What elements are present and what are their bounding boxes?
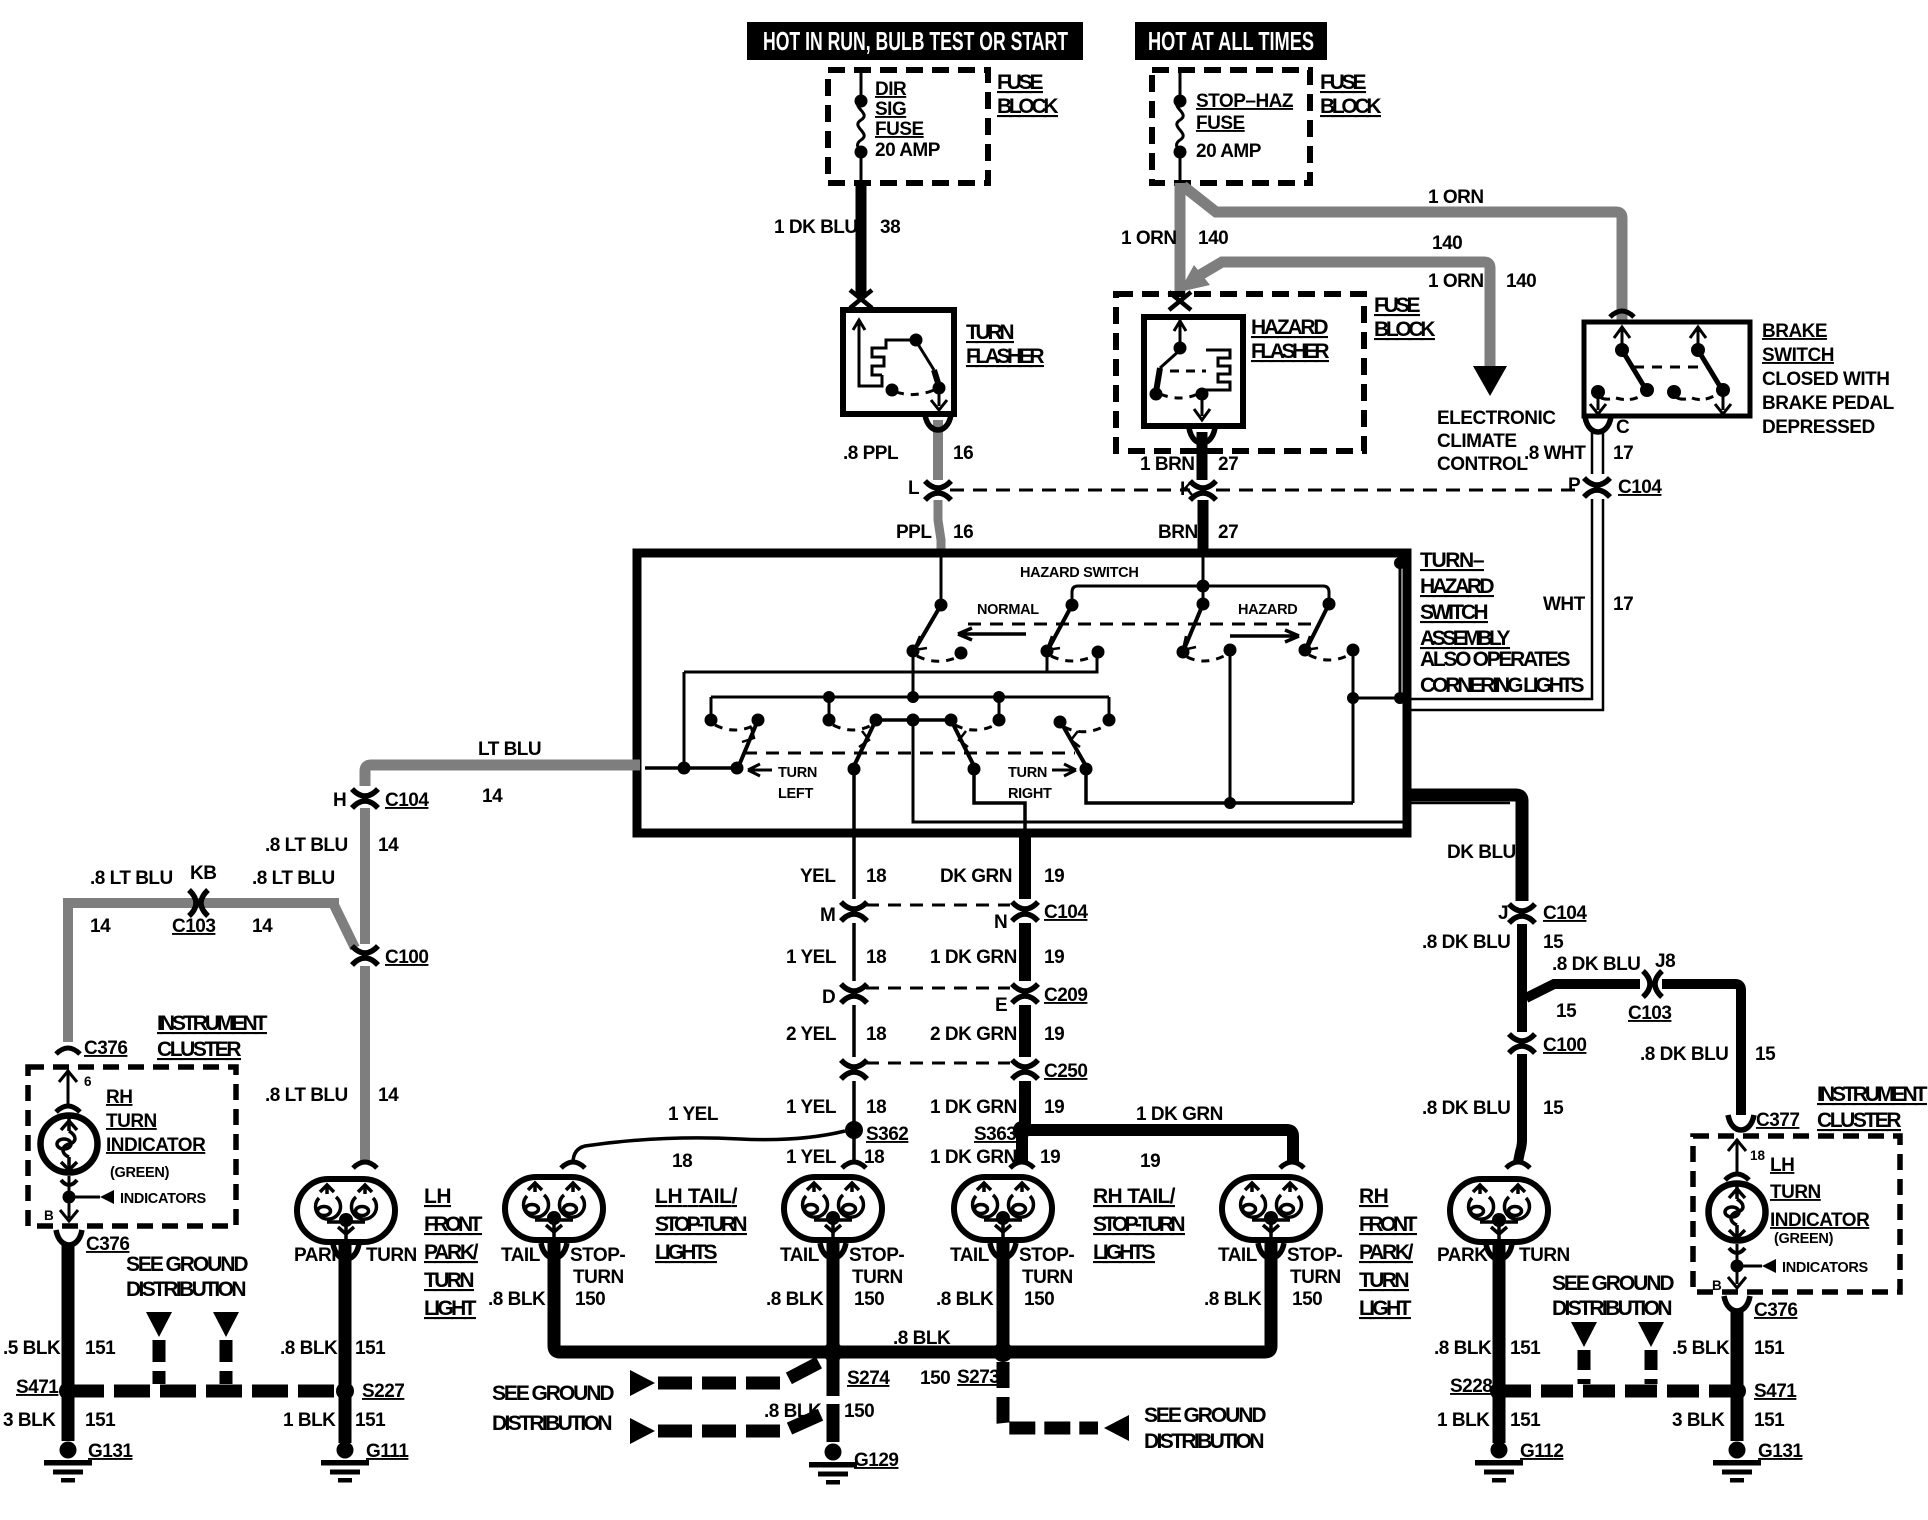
svg-text:.8 DK BLU: .8 DK BLU <box>1422 932 1510 953</box>
svg-text:151: 151 <box>1510 1338 1541 1359</box>
svg-text:BLOCK: BLOCK <box>1320 95 1381 118</box>
splice S471 (right) <box>1728 1382 1746 1400</box>
LH turn indicator bulb (GREEN) <box>1725 1174 1749 1180</box>
svg-text:3 BLK: 3 BLK <box>3 1410 56 1431</box>
svg-text:TURN: TURN <box>1359 1269 1409 1292</box>
svg-text:TAIL: TAIL <box>950 1245 990 1266</box>
svg-text:1 ORN: 1 ORN <box>1121 228 1177 249</box>
svg-text:.8 BLK: .8 BLK <box>936 1289 994 1310</box>
svg-text:TURN: TURN <box>1290 1267 1341 1288</box>
svg-text:FUSE: FUSE <box>875 119 924 140</box>
LH tail/stop-turn lamp (inner) <box>842 1162 866 1168</box>
node BRN junction <box>1197 580 1210 593</box>
dashed travel line (turn row) <box>744 752 1075 755</box>
svg-text:RIGHT: RIGHT <box>1008 786 1052 802</box>
svg-text:CLOSED WITH: CLOSED WITH <box>1762 369 1890 390</box>
svg-text:PARK: PARK <box>1437 1245 1488 1266</box>
wire turn-right feed <box>1086 769 1353 803</box>
wire 1 DK GRN 19 (S363 to lamp) <box>1016 1136 1028 1162</box>
wire BRN 27 below C104 <box>1198 500 1209 557</box>
svg-text:1 DK BLU: 1 DK BLU <box>774 217 858 238</box>
svg-text:1 YEL: 1 YEL <box>786 947 837 968</box>
svg-text:DISTRIBUTION: DISTRIBUTION <box>126 1278 246 1301</box>
svg-text:FUSE: FUSE <box>1320 71 1366 94</box>
svg-text:DK GRN: DK GRN <box>940 866 1012 887</box>
svg-text:L: L <box>908 478 920 499</box>
svg-text:151: 151 <box>85 1338 116 1359</box>
svg-text:NORMAL: NORMAL <box>977 602 1039 618</box>
RH tail/stop-turn lamp (outer) <box>1280 1162 1304 1168</box>
wire .5 BLK 151 <box>62 1244 75 1441</box>
svg-text:TURN: TURN <box>573 1267 624 1288</box>
svg-text:LIGHT: LIGHT <box>424 1297 477 1320</box>
fuse block 2 (dashed box) <box>1152 70 1310 183</box>
wire .8 DK BLU 15 <box>1517 924 1527 1032</box>
connector below hazard flasher <box>1189 428 1215 443</box>
svg-text:TURN–: TURN– <box>1420 549 1485 572</box>
svg-text:19: 19 <box>1140 1151 1160 1172</box>
svg-text:DISTRIBUTION: DISTRIBUTION <box>1144 1430 1264 1453</box>
svg-text:BRAKE PEDAL: BRAKE PEDAL <box>1762 393 1895 414</box>
svg-text:140: 140 <box>1506 271 1536 292</box>
TURN LEFT label with arrow <box>748 764 772 776</box>
svg-text:.8 DK BLU: .8 DK BLU <box>1552 954 1640 975</box>
ground G129 <box>809 1444 857 1485</box>
turn flasher internals <box>853 320 947 410</box>
wire .5 BLK 151 (right) <box>1731 1310 1744 1441</box>
connector C103 <box>189 890 208 916</box>
svg-text:TURN: TURN <box>366 1245 417 1266</box>
wire .8 DK BLU 15 to C377 <box>1662 984 1741 1115</box>
connector C250 (grn) <box>1012 1060 1038 1079</box>
svg-text:S471: S471 <box>16 1377 59 1398</box>
svg-text:STOP-: STOP- <box>1019 1245 1074 1266</box>
svg-text:140: 140 <box>1198 228 1228 249</box>
svg-text:TURN: TURN <box>1770 1182 1821 1203</box>
svg-text:S471: S471 <box>1754 1381 1797 1402</box>
svg-text:.8 LT BLU: .8 LT BLU <box>252 868 335 889</box>
splice S362 <box>845 1121 863 1139</box>
wire 1 YEL 18 (below C250) <box>852 1081 856 1124</box>
svg-text:G131: G131 <box>1758 1441 1803 1462</box>
wire .8 BLK 151 (RH park lamp to S228) <box>1493 1243 1506 1443</box>
splice S227 <box>336 1382 354 1400</box>
svg-text:C103: C103 <box>1628 1003 1671 1024</box>
svg-text:14: 14 <box>482 786 503 807</box>
svg-text:STOP-: STOP- <box>570 1245 625 1266</box>
hazard flasher internals <box>1156 320 1230 420</box>
svg-text:RH: RH <box>106 1087 132 1108</box>
wire 1 ORN 140 (fuse to hazard flasher, shaded) <box>1175 183 1186 296</box>
switch blade S2 <box>1066 599 1079 612</box>
svg-text:19: 19 <box>1044 947 1064 968</box>
svg-text:CORNERING LIGHTS: CORNERING LIGHTS <box>1420 674 1584 697</box>
svg-text:SWITCH: SWITCH <box>1420 601 1488 624</box>
svg-text:150: 150 <box>1292 1289 1322 1310</box>
svg-text:6: 6 <box>84 1074 92 1089</box>
svg-text:14: 14 <box>378 835 399 856</box>
wire contact bus upper <box>684 651 1097 768</box>
svg-text:.8 BLK: .8 BLK <box>1434 1338 1492 1359</box>
svg-text:TAIL: TAIL <box>780 1245 820 1266</box>
ground G112 <box>1475 1442 1523 1483</box>
feed banner HOT IN RUN <box>747 22 1083 60</box>
svg-text:19: 19 <box>1044 1097 1064 1118</box>
wire to S4 pivot <box>1203 586 1329 602</box>
svg-text:FRONT: FRONT <box>424 1213 483 1236</box>
svg-text:1 ORN: 1 ORN <box>1428 187 1484 208</box>
svg-text:1 DK GRN: 1 DK GRN <box>930 1147 1017 1168</box>
svg-text:SEE GROUND: SEE GROUND <box>126 1253 248 1276</box>
dashed link D-E <box>866 987 1010 990</box>
wire dk grn feed down <box>974 769 1025 833</box>
ground bus S471-S227 (dashed) <box>68 1385 345 1398</box>
turn flasher box <box>843 310 954 414</box>
pin 18 <box>1736 1139 1739 1172</box>
wire 2 YEL 18 <box>852 1005 856 1057</box>
svg-text:G131: G131 <box>88 1441 133 1462</box>
splice S273 <box>993 1342 1013 1362</box>
svg-text:LIGHTS: LIGHTS <box>655 1241 717 1264</box>
svg-text:1 YEL: 1 YEL <box>786 1147 837 1168</box>
svg-text:C104: C104 <box>1044 902 1088 923</box>
svg-text:150: 150 <box>920 1368 950 1389</box>
wire .8 DK BLU 15 to RH park lamp <box>1518 1054 1522 1162</box>
wire 1 ORN 140 (fuse to climate control, shaded) <box>1200 262 1490 368</box>
svg-text:18: 18 <box>866 866 886 887</box>
wire to S2 pivot <box>1072 586 1203 603</box>
contact arcs row <box>715 725 755 730</box>
svg-text:(GREEN): (GREEN) <box>1774 1231 1834 1247</box>
svg-text:16: 16 <box>953 522 973 543</box>
svg-text:P: P <box>1568 475 1581 496</box>
svg-text:E: E <box>995 995 1007 1016</box>
svg-text:DISTRIBUTION: DISTRIBUTION <box>1552 1297 1672 1320</box>
svg-text:SEE GROUND: SEE GROUND <box>492 1382 614 1405</box>
brake switch internals <box>1590 327 1731 414</box>
svg-text:J8: J8 <box>1655 951 1675 972</box>
svg-text:S363: S363 <box>974 1124 1016 1145</box>
connector C376 (right) <box>1724 1296 1750 1311</box>
ground G131 <box>44 1442 92 1483</box>
svg-text:FUSE: FUSE <box>1374 294 1420 317</box>
wire PPL into switch <box>940 557 943 602</box>
svg-text:G112: G112 <box>1520 1441 1563 1462</box>
svg-text:18: 18 <box>866 1024 886 1045</box>
svg-text:LH: LH <box>1770 1155 1794 1176</box>
svg-text:C104: C104 <box>1618 477 1662 498</box>
svg-text:.8 LT BLU: .8 LT BLU <box>90 868 173 889</box>
turn blade grn <box>953 724 974 766</box>
svg-text:14: 14 <box>378 1085 399 1106</box>
svg-text:150: 150 <box>854 1289 884 1310</box>
turn-right blade <box>1063 726 1086 766</box>
svg-text:CONTROL: CONTROL <box>1437 454 1528 475</box>
wire wht contact drop <box>1353 560 1400 803</box>
svg-text:M: M <box>820 905 835 926</box>
svg-text:LH TAIL/: LH TAIL/ <box>655 1185 738 1208</box>
svg-text:15: 15 <box>1543 1098 1564 1119</box>
wire yel feed down <box>852 769 856 833</box>
svg-text:D: D <box>822 987 835 1008</box>
wire 1 DK GRN 19 <box>1019 923 1031 981</box>
svg-text:RH: RH <box>1359 1185 1388 1208</box>
svg-text:38: 38 <box>880 217 900 238</box>
ground bus S228-S471 (dashed) <box>1499 1385 1737 1398</box>
svg-text:17: 17 <box>1613 443 1633 464</box>
fuse STOP-HAZ 20 AMP <box>1177 73 1184 186</box>
brake switch entry connector <box>1610 311 1634 317</box>
indicators tap (right) <box>1736 1244 1739 1284</box>
switch blade S3 (hazard) <box>1202 586 1205 601</box>
svg-text:LIGHT: LIGHT <box>1359 1297 1412 1320</box>
svg-text:S227: S227 <box>362 1381 404 1402</box>
svg-text:S362: S362 <box>866 1124 908 1145</box>
svg-text:ALSO OPERATES: ALSO OPERATES <box>1420 648 1570 671</box>
svg-text:1 BRN: 1 BRN <box>1140 454 1195 475</box>
svg-text:C250: C250 <box>1044 1061 1087 1082</box>
svg-text:1 BLK: 1 BLK <box>283 1410 336 1431</box>
LH front park/turn lamp <box>353 1162 377 1168</box>
dashed link C250 <box>866 1062 1010 1065</box>
wire LT BLU inside <box>645 766 737 770</box>
contact arc S1 <box>907 645 920 658</box>
dashed link M-N <box>866 904 1010 907</box>
svg-text:151: 151 <box>355 1338 386 1359</box>
wire 1 DK BLU 38 <box>856 183 867 296</box>
svg-text:HAZARD: HAZARD <box>1420 575 1494 598</box>
svg-text:TURN: TURN <box>106 1111 157 1132</box>
svg-text:DK BLU: DK BLU <box>1447 842 1516 863</box>
svg-text:.5 BLK: .5 BLK <box>1672 1338 1730 1359</box>
svg-text:TURN: TURN <box>778 765 817 781</box>
RH front park/turn lamp <box>1506 1162 1530 1168</box>
svg-text:151: 151 <box>1754 1410 1785 1431</box>
switch blade S1 (normal left) <box>935 599 948 612</box>
svg-text:N: N <box>994 912 1007 933</box>
hazard flasher fuse block (dashed box) <box>1116 294 1364 451</box>
ground G111 <box>321 1442 369 1483</box>
switch blade S4 (hazard right) <box>1323 598 1336 611</box>
svg-text:TAIL: TAIL <box>1218 1245 1258 1266</box>
wire BRN into switch <box>1202 557 1205 583</box>
instrument cluster box (left, dashed) <box>28 1067 236 1226</box>
turn-hazard switch assembly box <box>637 553 1407 833</box>
splice S363 <box>1013 1121 1031 1139</box>
wire .8 LT BLU branch (shaded) to C103 <box>68 903 355 1042</box>
svg-text:SIG: SIG <box>875 99 906 120</box>
ground dist arrow 4 <box>1638 1322 1664 1347</box>
svg-text:1 DK GRN: 1 DK GRN <box>1136 1104 1223 1125</box>
svg-text:C104: C104 <box>1543 903 1587 924</box>
svg-text:(GREEN): (GREEN) <box>110 1165 170 1181</box>
svg-text:1 YEL: 1 YEL <box>668 1104 719 1125</box>
svg-text:ASSEMBLY: ASSEMBLY <box>1420 627 1510 650</box>
contact row <box>705 714 718 727</box>
wire lower cross link <box>913 720 1403 822</box>
svg-text:151: 151 <box>85 1410 116 1431</box>
LH tail/stop-turn lamp (outer) <box>561 1162 585 1168</box>
connector C376 (bottom) <box>56 1230 82 1245</box>
svg-text:1 DK GRN: 1 DK GRN <box>930 1097 1017 1118</box>
svg-text:SWITCH: SWITCH <box>1762 345 1834 366</box>
svg-text:18: 18 <box>866 947 886 968</box>
svg-text:INSTRUMENT: INSTRUMENT <box>157 1012 268 1035</box>
svg-text:B: B <box>44 1208 54 1223</box>
svg-text:KB: KB <box>190 863 216 884</box>
svg-text:18: 18 <box>1750 1148 1766 1163</box>
svg-text:151: 151 <box>1754 1338 1785 1359</box>
svg-text:TURN: TURN <box>852 1267 903 1288</box>
svg-text:CLIMATE: CLIMATE <box>1437 431 1517 452</box>
wire lamp3 to S273 <box>997 1243 1010 1352</box>
svg-text:.8 LT BLU: .8 LT BLU <box>265 1085 348 1106</box>
wire .8 PPL 16 (shaded) <box>933 420 943 480</box>
ground dist arrow 1 <box>146 1312 172 1337</box>
wire PPL 16 below C104 <box>938 500 941 557</box>
svg-text:20 AMP: 20 AMP <box>875 140 941 161</box>
svg-text:.8 DK BLU: .8 DK BLU <box>1640 1044 1728 1065</box>
svg-text:HAZARD: HAZARD <box>1238 602 1297 618</box>
svg-text:FUSE: FUSE <box>1196 113 1245 134</box>
svg-text:C103: C103 <box>172 916 215 937</box>
svg-text:.8 PPL: .8 PPL <box>843 443 899 464</box>
svg-text:2 DK GRN: 2 DK GRN <box>930 1024 1017 1045</box>
svg-text:PARK/: PARK/ <box>424 1241 479 1264</box>
svg-text:SEE GROUND: SEE GROUND <box>1144 1404 1266 1427</box>
svg-text:INSTRUMENT: INSTRUMENT <box>1817 1083 1928 1106</box>
wire lamp2 to S274 <box>827 1243 840 1352</box>
ground G131 (right) <box>1713 1442 1761 1483</box>
svg-text:.5 BLK: .5 BLK <box>3 1338 61 1359</box>
svg-text:HOT IN RUN, BULB TEST OR START: HOT IN RUN, BULB TEST OR START <box>763 26 1068 56</box>
svg-text:TURN: TURN <box>966 321 1014 344</box>
wire .8 BLK 150 S274 to G129 <box>827 1352 840 1442</box>
svg-text:TURN: TURN <box>1008 765 1047 781</box>
connector below turn flasher <box>925 415 951 430</box>
svg-text:18: 18 <box>864 1147 884 1168</box>
svg-text:STOP–HAZ: STOP–HAZ <box>1196 91 1294 112</box>
svg-text:19: 19 <box>1044 866 1064 887</box>
ground dist arrow S273 <box>1003 1362 1098 1428</box>
svg-text:LH: LH <box>424 1185 451 1208</box>
svg-text:STOP-: STOP- <box>1287 1245 1342 1266</box>
svg-text:.8 WHT: .8 WHT <box>1524 443 1586 464</box>
svg-text:2 YEL: 2 YEL <box>786 1024 837 1045</box>
splice S274 <box>823 1342 843 1362</box>
arrow to electronic climate control <box>1473 366 1507 396</box>
svg-text:INDICATOR: INDICATOR <box>1770 1210 1870 1231</box>
connector C100 (right) <box>1509 1034 1535 1053</box>
svg-text:20 AMP: 20 AMP <box>1196 141 1262 162</box>
svg-text:FLASHER: FLASHER <box>1251 340 1329 363</box>
svg-text:LT BLU: LT BLU <box>478 739 541 760</box>
svg-text:150: 150 <box>844 1401 874 1422</box>
svg-text:TURN: TURN <box>1519 1245 1570 1266</box>
feed banner HOT AT ALL TIMES <box>1135 22 1327 60</box>
connector C100 (left) <box>352 946 378 965</box>
svg-text:DEPRESSED: DEPRESSED <box>1762 417 1875 438</box>
svg-text:INDICATOR: INDICATOR <box>106 1135 206 1156</box>
wire 1 YEL 18 branch to LH tail <box>573 1131 845 1163</box>
dashed travel line (normal row) <box>968 623 1311 626</box>
svg-text:3 BLK: 3 BLK <box>1672 1410 1725 1431</box>
connector C376 (top) <box>56 1048 80 1054</box>
svg-text:151: 151 <box>355 1410 386 1431</box>
pin 6 <box>67 1070 70 1104</box>
wire hazard contact drop <box>1229 650 1232 803</box>
svg-text:18: 18 <box>672 1151 692 1172</box>
svg-text:C376: C376 <box>1754 1300 1797 1321</box>
wire .8 LT BLU 14 (shaded) C100 to park lamp <box>360 966 370 1162</box>
svg-text:FLASHER: FLASHER <box>966 345 1044 368</box>
wire YEL 18 <box>852 833 856 899</box>
wire 1 DK GRN 19 (below C250) <box>1019 1081 1031 1124</box>
svg-text:S274: S274 <box>847 1368 890 1389</box>
svg-text:TURN: TURN <box>424 1269 474 1292</box>
svg-text:17: 17 <box>1613 594 1633 615</box>
svg-text:C100: C100 <box>385 947 428 968</box>
svg-text:14: 14 <box>252 916 273 937</box>
wire 1 DK GRN 19 branch to RH tail <box>1029 1130 1293 1162</box>
wire DK GRN 19 <box>1019 833 1031 899</box>
wire contact bus lower <box>711 651 1109 718</box>
svg-text:.8 BLK: .8 BLK <box>1204 1289 1262 1310</box>
svg-text:HAZARD: HAZARD <box>1251 316 1328 339</box>
brake switch box <box>1584 322 1750 416</box>
svg-text:C100: C100 <box>1543 1035 1586 1056</box>
svg-text:C376: C376 <box>86 1234 129 1255</box>
wire 1 YEL 18 (S362 to lamp) <box>852 1136 856 1162</box>
svg-text:INDICATORS: INDICATORS <box>1782 1260 1869 1276</box>
svg-text:TAIL: TAIL <box>501 1245 541 1266</box>
turn blade yel <box>854 724 874 766</box>
svg-text:BLOCK: BLOCK <box>997 95 1058 118</box>
svg-text:15: 15 <box>1543 932 1564 953</box>
svg-text:STOP-: STOP- <box>849 1245 904 1266</box>
svg-text:.8 DK BLU: .8 DK BLU <box>1422 1098 1510 1119</box>
svg-text:151: 151 <box>1510 1410 1541 1431</box>
svg-text:ELECTRONIC: ELECTRONIC <box>1437 408 1556 429</box>
svg-text:FUSE: FUSE <box>997 71 1043 94</box>
svg-text:INDICATORS: INDICATORS <box>120 1191 207 1207</box>
svg-text:CLUSTER: CLUSTER <box>1817 1109 1901 1132</box>
wire DK BLU from switch assembly <box>1407 795 1522 901</box>
ground dist arrow row 2 <box>630 1418 655 1444</box>
svg-text:150: 150 <box>1024 1289 1054 1310</box>
svg-text:.8 BLK: .8 BLK <box>280 1338 338 1359</box>
svg-text:B: B <box>1712 1278 1722 1293</box>
ground dist arrow 3 <box>1571 1322 1597 1347</box>
svg-text:G111: G111 <box>366 1441 409 1462</box>
svg-text:.8 BLK: .8 BLK <box>766 1289 824 1310</box>
connector C250 (yel) <box>841 1060 867 1079</box>
svg-text:S228: S228 <box>1450 1376 1492 1397</box>
svg-text:DISTRIBUTION: DISTRIBUTION <box>492 1412 612 1435</box>
svg-text:140: 140 <box>1432 233 1462 254</box>
svg-text:14: 14 <box>90 916 111 937</box>
svg-text:1 ORN: 1 ORN <box>1428 271 1484 292</box>
svg-text:150: 150 <box>575 1289 605 1310</box>
wire 1 ORN (fuse to brake switch, shaded) <box>1183 186 1622 320</box>
svg-text:TURN: TURN <box>1022 1267 1073 1288</box>
turn-left blade <box>740 720 758 763</box>
svg-text:C209: C209 <box>1044 985 1087 1006</box>
svg-text:.8 LT BLU: .8 LT BLU <box>265 835 348 856</box>
svg-text:FRONT: FRONT <box>1359 1213 1418 1236</box>
svg-text:1 YEL: 1 YEL <box>786 1097 837 1118</box>
svg-text:SEE GROUND: SEE GROUND <box>1552 1272 1674 1295</box>
